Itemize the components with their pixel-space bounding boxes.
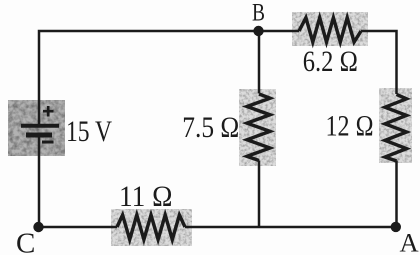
battery V1 highlight box	[8, 100, 65, 156]
wire: bottom rail left segment (11 ohm to C) + left rail bottom	[39, 137, 117, 227]
wire: left rail top + top rail to 6.2 ohm	[39, 31, 299, 126]
svg-text:15 V: 15 V	[66, 115, 112, 148]
resistor 12 ohm highlight box	[379, 88, 412, 163]
svg-text:11 Ω: 11 Ω	[119, 180, 173, 213]
battery V1 long positive plate	[21, 124, 59, 128]
battery V1 short negative plate	[26, 133, 52, 138]
battery plus sign	[43, 106, 54, 117]
svg-text:7.5 Ω: 7.5 Ω	[182, 111, 239, 144]
wire: middle branch lower (7.5 ohm to bottom rail)	[258, 161, 261, 228]
resistor 6.2 ohm zigzag	[299, 18, 361, 42]
resistor 6.2 ohm highlight box	[292, 12, 368, 46]
svg-text:6.2 Ω: 6.2 Ω	[303, 45, 358, 78]
svg-text:A: A	[400, 227, 419, 255]
node A junction dot	[391, 222, 401, 232]
resistor 7.5 ohm highlight box	[239, 89, 276, 166]
node C junction dot	[33, 222, 43, 232]
wire: top rail right corner down to 12 ohm	[361, 31, 397, 94]
resistor 11 ohm zigzag	[117, 215, 185, 240]
svg-text:12 Ω: 12 Ω	[326, 110, 374, 143]
wire: right rail lower to node A	[395, 161, 398, 228]
svg-text:C: C	[16, 228, 35, 255]
wire: bottom rail right segment (A to 11 ohm)	[185, 226, 397, 229]
wire: middle branch upper (B down to 7.5 ohm)	[258, 31, 261, 94]
resistor 7.5 ohm zigzag	[247, 94, 270, 161]
battery minus sign	[42, 141, 54, 144]
svg-text:B: B	[252, 0, 265, 26]
resistor 11 ohm highlight box	[111, 209, 192, 246]
node B junction dot	[253, 26, 263, 36]
resistor 12 ohm zigzag	[385, 94, 407, 161]
